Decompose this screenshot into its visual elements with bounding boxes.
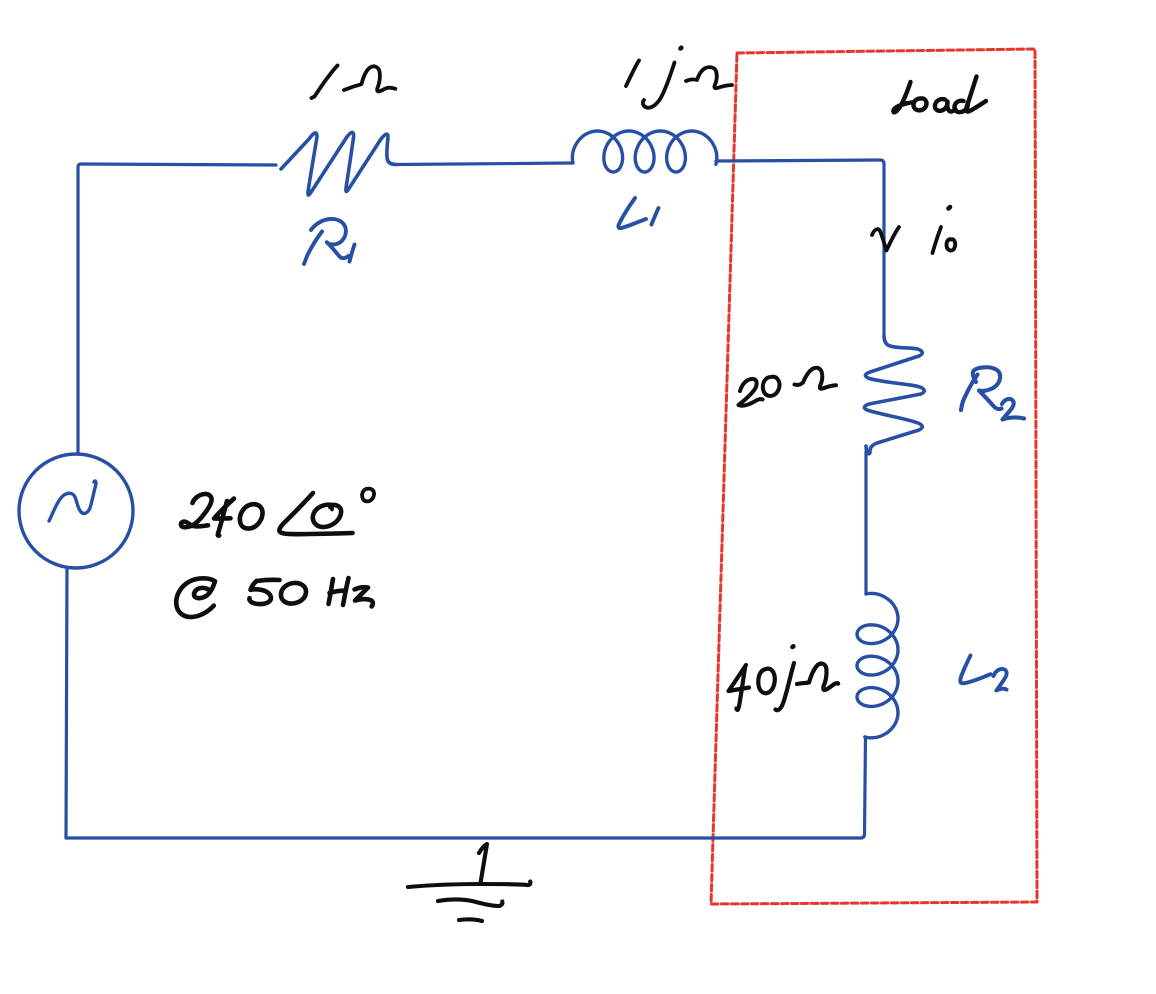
source sine symbol [49, 481, 96, 521]
inductor L2 [857, 593, 898, 737]
wire bottom horizontal [66, 836, 861, 839]
ground symbol [408, 844, 530, 921]
wire R1 to L1 [396, 163, 573, 165]
label at 50 Hz (source frequency) [176, 578, 373, 617]
resistor R2 [864, 336, 924, 454]
resistor R1 [281, 132, 396, 195]
label R2 [961, 367, 1024, 419]
wire bottom-left vertical [66, 568, 67, 838]
label i0 [933, 207, 956, 253]
label 240 angle 0 deg (source value) [181, 489, 374, 536]
label R1 [304, 219, 355, 264]
label 1 ohm (R1 value) [312, 66, 396, 99]
label 40 j ohm (L2 value) [729, 646, 839, 710]
label 1 j ohm (L1 value) [626, 48, 732, 108]
label L1 [618, 198, 658, 228]
label 20 ohm (R2 value) [739, 368, 837, 406]
wire R2 to L2 [864, 452, 867, 594]
source V1 circle [19, 454, 133, 568]
inductor L1 [572, 131, 716, 172]
wire L1 to top-right corner, down [716, 160, 884, 336]
wire L2 to bottom corner [861, 737, 866, 838]
label L2 [960, 656, 1006, 691]
wire top-left vertical [78, 164, 81, 454]
current arrow (check mark) [872, 227, 899, 251]
load box (red dashed) [711, 49, 1037, 904]
label Load [893, 77, 986, 113]
wire top horizontal [81, 164, 276, 165]
